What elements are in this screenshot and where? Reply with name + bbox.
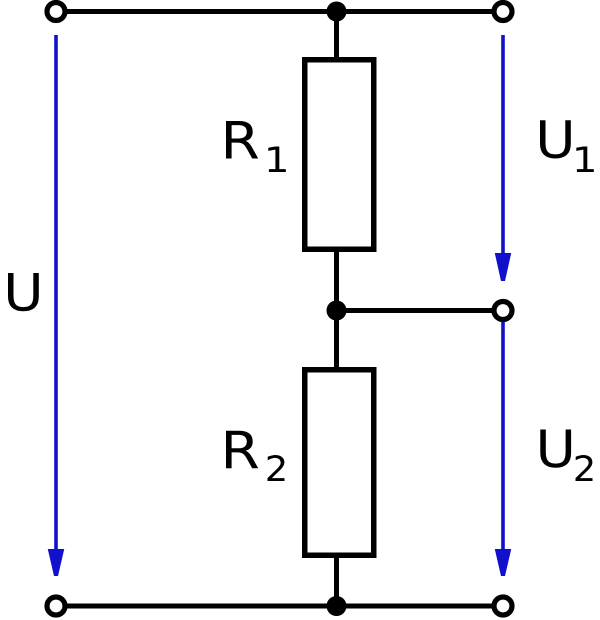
- label U1: U: [540, 120, 571, 158]
- arrow U2 shaft: [501, 322, 505, 554]
- label U: [8, 273, 39, 311]
- terminal top-right: [494, 3, 512, 21]
- terminal top-left: [47, 3, 65, 21]
- arrow U2 head: [495, 549, 512, 576]
- junction dot bottom: [327, 596, 347, 616]
- wire middle horizontal: [337, 308, 504, 313]
- label U2: sub 2: [576, 455, 593, 481]
- resistor R1: [305, 60, 374, 250]
- arrow U left head: [48, 549, 65, 576]
- label R2: sub 2: [268, 455, 285, 481]
- arrow U1 head: [495, 253, 512, 281]
- junction dot middle: [327, 301, 347, 321]
- arrow U left shaft: [54, 35, 58, 554]
- label R1: R: [226, 121, 258, 159]
- wire bottom horizontal: [56, 604, 503, 609]
- label R1: sub 1: [268, 147, 286, 173]
- resistor R2: [305, 370, 374, 556]
- wire vertical center: [334, 12, 339, 607]
- label U2: U: [540, 430, 571, 468]
- junction dot top: [327, 2, 347, 22]
- terminal bottom-right: [494, 597, 512, 615]
- label U1: sub 1: [576, 147, 594, 173]
- terminal middle-right: [494, 302, 512, 320]
- wire top horizontal: [56, 9, 503, 14]
- label R2: R: [226, 431, 258, 469]
- arrow U1 shaft: [501, 35, 505, 259]
- terminal bottom-left: [47, 597, 65, 615]
